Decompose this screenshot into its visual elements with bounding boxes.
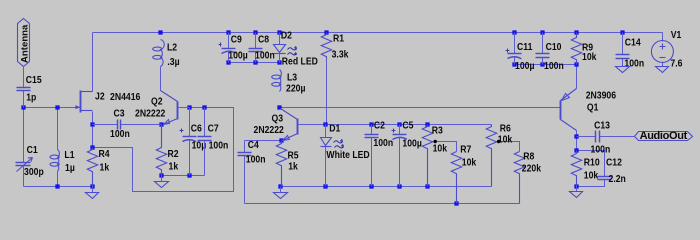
ground at R2/C6/C7 [155,176,169,188]
svg-text:L2: L2 [167,42,177,54]
svg-text:7.6: 7.6 [670,58,682,70]
wiper dot of R3 [434,140,437,143]
resistor R9 10k [571,33,597,65]
svg-text:C6: C6 [191,123,202,135]
capacitor C2 100n [365,120,394,187]
svg-text:100n: 100n [246,154,266,166]
wire input row down to C1 [23,108,25,163]
wire R7 bottom column [456,174,458,204]
svg-text:R3: R3 [432,125,443,137]
svg-text:1k: 1k [288,161,298,173]
junction dots R2/C6 ground row [159,173,191,177]
junction dots lower ground row [278,184,429,188]
svg-text:100n: 100n [110,129,130,141]
ground at C14 [616,59,630,73]
svg-text:C8: C8 [258,34,269,46]
wire D2/L3 column stub [279,52,281,63]
capacitor C15 1p [17,67,42,108]
svg-text:100n: 100n [373,137,393,149]
capacitor C4 100n [238,139,266,203]
svg-text:1k: 1k [100,162,110,174]
svg-text:C2: C2 [374,120,385,132]
svg-text:C1: C1 [27,144,38,156]
transistor J2 2N4416 (N-JFET) [75,91,140,113]
svg-text:R8: R8 [523,151,534,163]
wire J2 source down to C3 node [92,112,94,125]
resistor R1 3.3k [321,33,349,61]
svg-text:.3µ: .3µ [167,56,179,68]
ground at V1 [656,62,669,73]
wire Q3 base rail to R6 [298,124,492,126]
wire C11-C10-R9 bottom row [515,64,577,66]
svg-text:100µ: 100µ [402,138,421,150]
junction dots input row [21,105,59,109]
wire L1 top column [57,108,59,150]
junction dots Q2 base row [187,105,206,109]
capacitor C13 100n [577,120,635,156]
svg-text:10k: 10k [433,143,448,155]
svg-text:C3: C3 [114,108,125,120]
svg-text:C10: C10 [546,41,562,53]
svg-text:C15: C15 [26,74,42,86]
svg-text:C5: C5 [402,120,413,132]
inductor L3 220u [272,70,306,95]
resistor R3 10k (pot upper) [422,125,447,187]
svg-text:Antenna: Antenna [20,24,31,63]
svg-text:C7: C7 [208,123,219,135]
resistor R4 1k [87,148,110,187]
svg-text:Red LED: Red LED [282,56,318,68]
capacitor C12 2.2n [598,157,627,185]
wiper dot of R6 [497,140,500,143]
svg-text:C9: C9 [231,34,242,46]
ground at R4 [86,187,99,199]
capacitor C10 100n [536,33,564,73]
svg-text:2N2222: 2N2222 [135,108,165,120]
svg-text:10k: 10k [582,52,597,64]
svg-text:220µ: 220µ [286,83,305,95]
svg-text:J2: J2 [95,91,105,103]
junction dot J2 source/R4 node [90,145,94,149]
svg-text:2.2n: 2.2n [609,173,627,185]
wire C13 node to R10 node [576,137,578,151]
wire tank bottom row [24,186,93,188]
wire C7 bottom column [204,141,206,176]
wire R6 wiper to R8 [497,142,520,152]
wire R2-C6-C7 ground row [162,175,205,177]
svg-text:R10: R10 [584,157,600,169]
svg-text:White LED: White LED [326,149,369,161]
net flag AudioOut [635,130,693,142]
svg-text:C4: C4 [248,139,260,151]
capacitor C3 100n [93,108,162,141]
ground at R5 [274,187,288,199]
wire top supply rail [93,32,663,34]
wire Q1 emitter column [576,65,578,89]
wire V1 top stub [662,33,664,42]
wire L2 bottom to Q2 collector [160,67,162,91]
svg-text:1k: 1k [169,161,179,173]
svg-text:1µ: 1µ [65,162,75,174]
svg-text:100n: 100n [209,140,229,152]
svg-text:100µ: 100µ [515,60,534,72]
wire R8 bottom column [519,174,521,204]
junction dot R10/C12 ground node [574,184,578,188]
capacitor C7 100n [198,108,229,176]
LED D2 red [274,30,319,68]
svg-text:Q1: Q1 [587,102,599,114]
wire C12 bottom to R10 bottom [577,180,605,187]
transistor Q2 2N2222 (NPN, mirrored) [135,91,190,125]
svg-text:10k: 10k [462,157,477,169]
junction dots on top rail [158,30,624,34]
junction dots tank bottom [55,184,94,188]
wire J2 drain to rail [92,33,94,92]
net flag Antenna [18,19,31,67]
inductor L1 1u [50,149,75,174]
wire Q1 collector to C13 node [576,131,578,137]
wire feedback loop R4node-C7-Q2base [93,108,234,192]
wire C15 to input row [23,92,25,108]
resistor R2 1k [156,125,179,176]
svg-text:2N4416: 2N4416 [110,91,140,103]
svg-text:R2: R2 [168,148,179,160]
wire bottom row C4-R7-R8 [245,203,520,205]
svg-text:Q3: Q3 [272,113,284,125]
LED D1 white [321,123,370,187]
svg-text:100n: 100n [255,50,275,62]
junction dots D1 bias rail [323,122,429,126]
junction dot L3-Q3 collector node [277,105,281,109]
junction dots C3 row [90,122,163,126]
svg-text:C13: C13 [594,120,610,132]
ground at R10/C12 [570,187,583,198]
svg-text:R7: R7 [460,144,471,156]
resistor R6 10k (pot upper) [486,123,513,187]
capacitor C1 300p (variable) [16,108,44,179]
svg-text:10k: 10k [584,170,599,182]
resistor R7 10k (pot lower) [451,144,477,204]
wire C9-C8-D2 bottom row [229,62,280,64]
svg-text:R1: R1 [333,33,344,45]
svg-text:C11: C11 [517,41,532,53]
junction dot Q3 emitter node [279,138,283,142]
wire antenna to C15 [23,67,25,88]
wire C4 bottom column [244,156,246,204]
svg-text:2N3906: 2N3906 [586,90,616,102]
svg-text:L1: L1 [64,149,74,161]
wire C3 node down to R4 node [92,125,94,148]
voltage source V1 7.6V [651,29,682,69]
transistor Q3 2N2222 (NPN, mirrored) [254,109,300,141]
wire lower ground row [281,186,492,188]
svg-text:1p: 1p [26,92,36,104]
inductor L2 0.3u [153,40,180,69]
svg-text:2N2222: 2N2222 [254,124,284,136]
svg-text:3.3k: 3.3k [332,49,350,61]
capacitor C14 100n [616,33,645,70]
wire mid rail L3/Q3collector to Q1 base [280,107,561,109]
wire antenna input row to J2 gate [24,107,80,109]
resistor R5 1k [276,141,298,187]
transistor Q1 2N3906 (PNP) [561,89,617,131]
svg-text:V1: V1 [671,29,682,41]
svg-text:C12: C12 [606,157,622,169]
capacitor C8 100n [249,33,275,63]
wire C1 bottom to tank bottom [23,166,25,187]
capacitor C11 100u [506,33,535,73]
svg-text:R4: R4 [99,148,111,160]
junction dots decoupling row right [512,62,578,66]
capacitor C6 10u [180,108,207,176]
svg-text:Q2: Q2 [151,96,163,108]
junction dots Q1 output nodes [574,134,578,152]
capacitor C9 100u [219,33,248,63]
svg-text:C14: C14 [625,37,642,49]
svg-text:100n: 100n [591,144,611,156]
svg-text:300p: 300p [24,166,44,178]
svg-text:10k: 10k [498,134,513,146]
wire C4 row to R5 node [245,140,282,142]
wire R10 node to C12 [577,151,605,177]
resistor R8 220k [514,151,541,204]
junction dots decoupling row left [226,60,281,64]
svg-text:D1: D1 [329,123,340,135]
svg-text:D2: D2 [281,30,292,42]
resistor R10 10k [571,151,599,187]
wire R3 wiper to R7 [433,142,457,152]
wire C6 bottom column [189,141,191,176]
capacitor C5 100u [392,120,422,187]
wire R1 bottom to D1 node [326,59,328,125]
wire L1 bottom column [57,172,59,187]
svg-text:100n: 100n [544,60,564,72]
svg-text:100µ: 100µ [228,50,247,62]
svg-text:220k: 220k [522,163,542,175]
junction dot R7 bottom row [454,201,458,205]
svg-text:AudioOut: AudioOut [640,130,688,142]
